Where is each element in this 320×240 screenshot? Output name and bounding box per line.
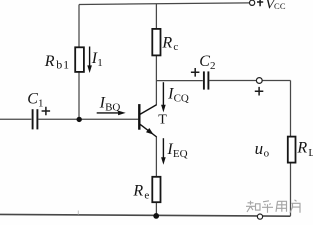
svg-text:e: e: [144, 189, 149, 201]
svg-text:EQ: EQ: [173, 148, 188, 160]
svg-text:1: 1: [38, 98, 44, 110]
svg-text:1: 1: [97, 57, 103, 69]
svg-text:2: 2: [210, 60, 216, 72]
svg-text:u: u: [255, 139, 264, 158]
svg-text:CC: CC: [274, 1, 286, 11]
svg-text:R: R: [44, 53, 55, 70]
svg-text:T: T: [158, 113, 167, 128]
svg-text:C: C: [27, 91, 38, 108]
svg-text:b1: b1: [56, 58, 70, 72]
svg-text:R: R: [132, 182, 143, 199]
svg-text:L: L: [308, 147, 313, 159]
svg-text:BQ: BQ: [105, 102, 120, 114]
svg-text:R: R: [296, 139, 307, 156]
svg-text:c: c: [173, 41, 178, 53]
svg-text:CQ: CQ: [174, 93, 189, 105]
svg-text:C: C: [199, 53, 210, 70]
svg-text:R: R: [161, 35, 172, 52]
svg-text:o: o: [264, 148, 270, 160]
